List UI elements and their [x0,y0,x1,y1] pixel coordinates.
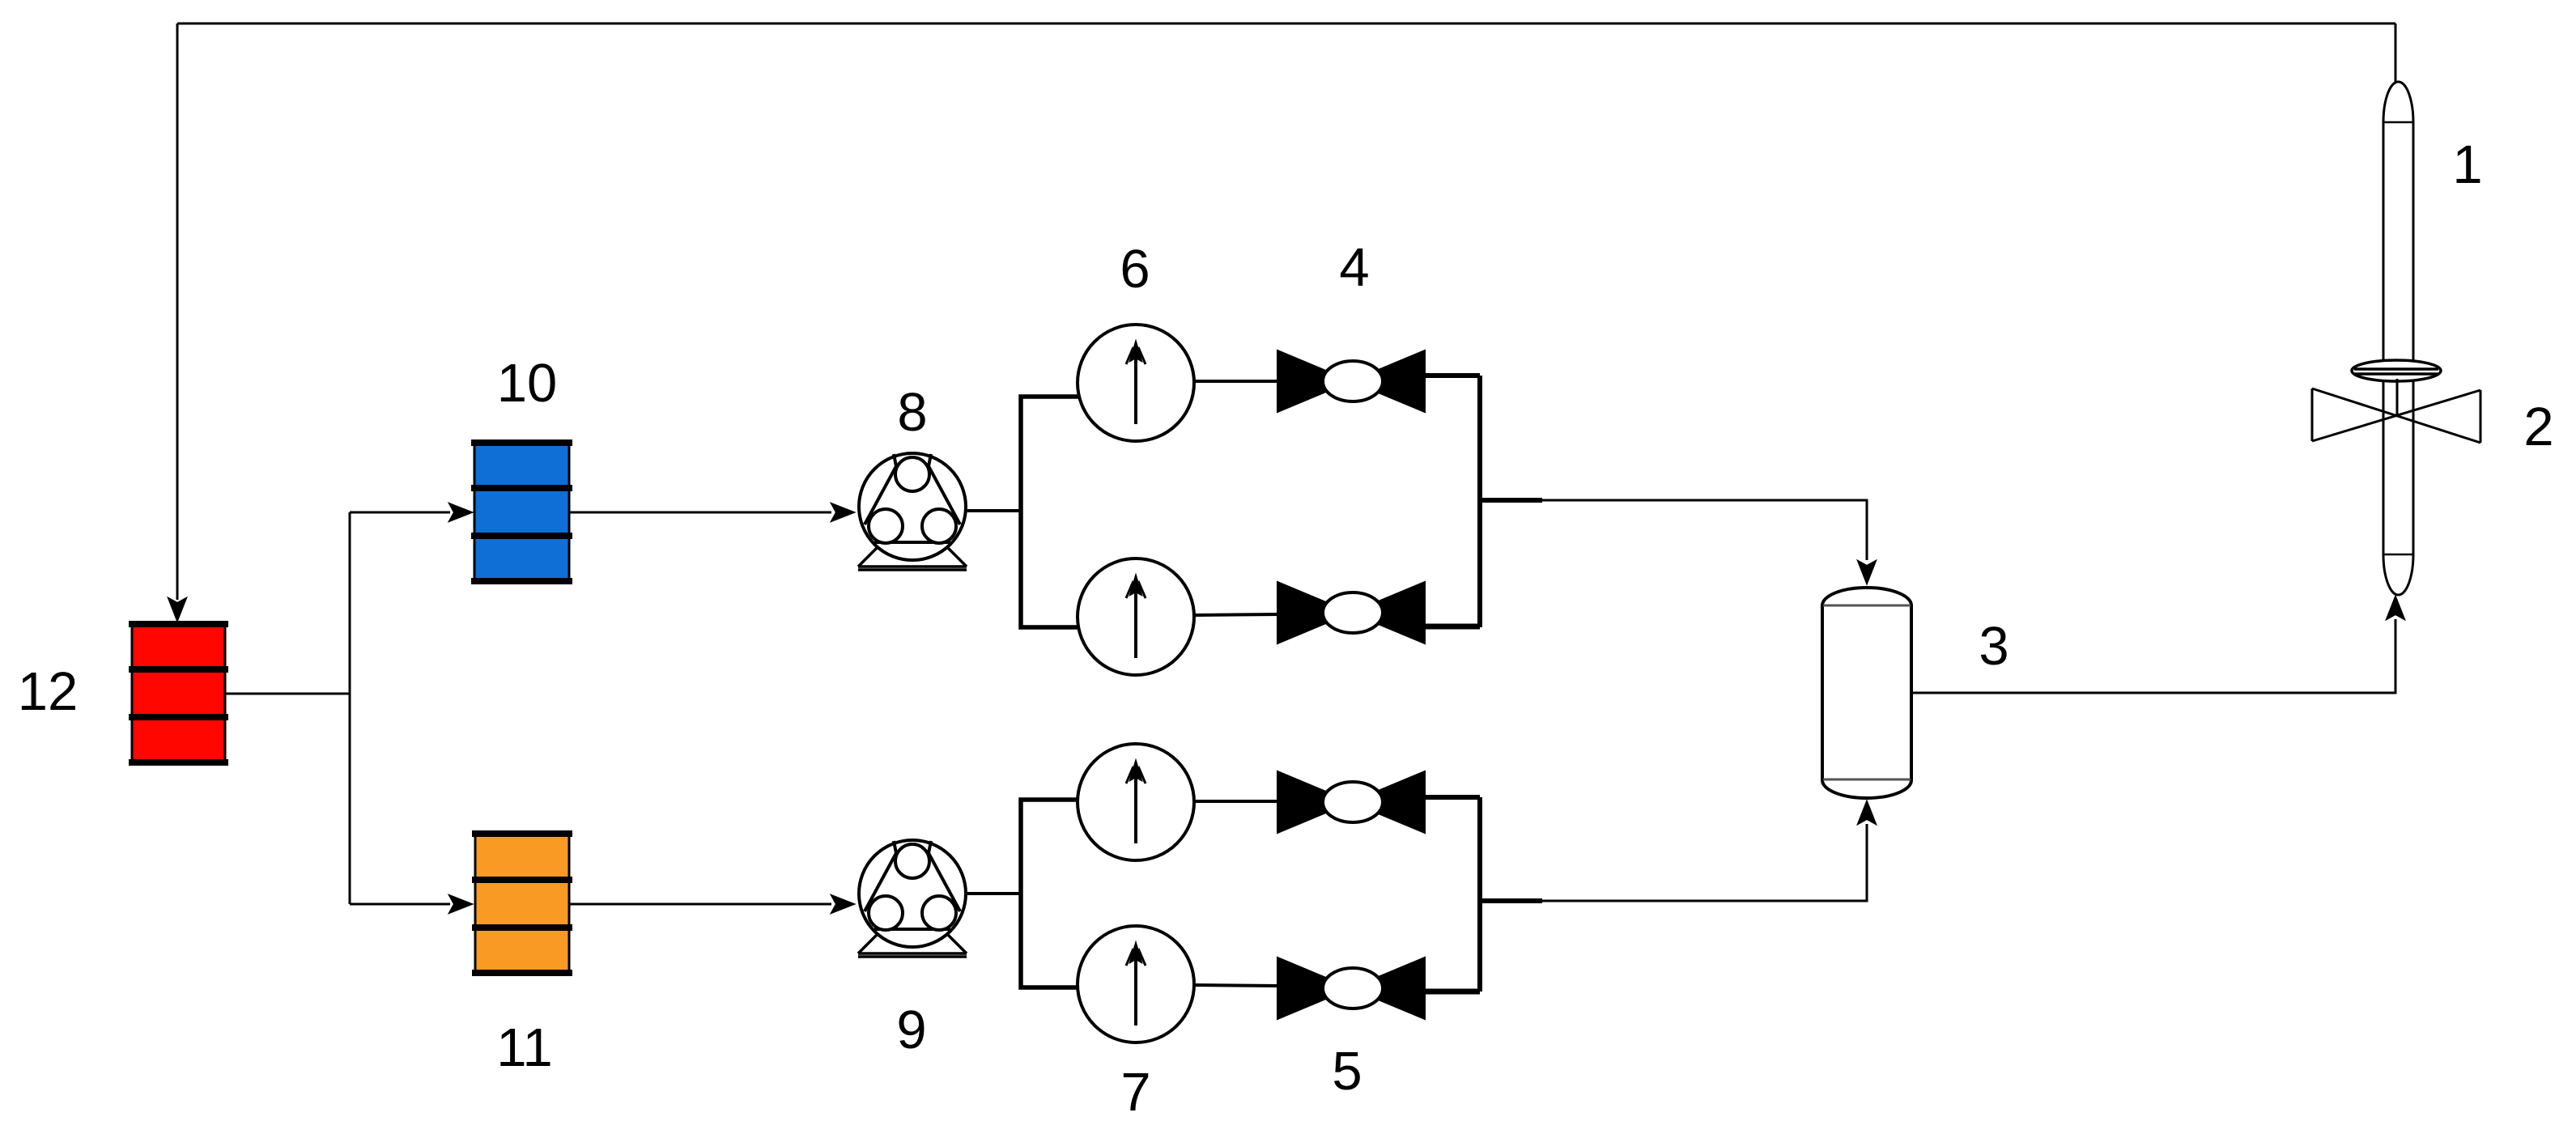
turbine 2 disc [2352,360,2441,381]
valve (lower of lower pair) [1277,958,1425,1019]
wire drum 10 to pump 8 [569,512,831,514]
upper branch frame right vertical [1477,376,1482,627]
wire upper branch output [1480,498,1542,503]
flow meter (lower of upper pair) [1078,558,1194,675]
wire valve to right vertical (lower of upper pair) [1423,624,1480,630]
wire valve 4 to right vertical [1423,373,1480,378]
wire to drum 10 [350,512,450,514]
arrow into drum 11 [449,895,472,913]
wire recycle right down to column top [2395,23,2397,82]
column 1 [2383,82,2413,595]
wire lower branch output [1480,898,1542,903]
arrow into column 1 bottom [2387,597,2404,619]
svg-text:2: 2 [2523,397,2553,457]
wire valve to right vertical (upper of lower pair) [1423,795,1480,800]
flow meter 6 [1078,325,1194,441]
wire top recycle horizontal [177,23,2395,25]
wire meter 7 to valve [1194,985,1280,986]
svg-text:4: 4 [1339,237,1369,298]
wire junction vertical [349,512,351,904]
wire pump 9 to branch [966,892,1021,895]
pump 8 (peristaltic) [858,453,967,570]
arrow into vessel 3 bottom [1858,801,1876,824]
upper branch frame left [1021,397,1083,627]
svg-text:9: 9 [896,1000,926,1060]
arrow into vessel 3 top [1858,561,1876,584]
arrow into drum 12 [168,598,186,621]
svg-text:3: 3 [1979,616,2009,677]
svg-text:7: 7 [1120,1062,1150,1123]
svg-text:10: 10 [497,353,558,414]
flow meter 7 [1078,926,1194,1042]
lower branch frame left [1021,800,1083,987]
turbine 2 blades [2312,389,2480,443]
wire pump 8 to branch [966,509,1021,512]
drum 11 (orange) [472,832,572,975]
flow meter (upper of lower pair) [1078,744,1194,860]
turbine 2 shaft stub [2396,379,2399,415]
svg-text:5: 5 [1332,1041,1362,1102]
pump 9 (peristaltic) [858,840,967,957]
drum 12 (red) [129,622,228,764]
wire drum 12 output [225,693,350,695]
svg-text:8: 8 [897,382,927,443]
wire vessel 3 output to column [1911,619,2395,693]
vessel 3 [1822,588,1911,798]
wire meter to valve (lower of upper pair) [1194,614,1280,615]
drum 10 (blue) [471,441,572,583]
valve 4 [1277,350,1425,412]
wire recycle left down to drum 12 [176,23,179,600]
wire meter to valve (upper of lower pair) [1194,800,1280,803]
svg-text:12: 12 [18,661,79,722]
wire valve to right vertical (lower of lower pair) [1423,989,1480,995]
arrow into pump 8 [831,503,854,521]
svg-text:11: 11 [496,1017,553,1078]
lower branch frame right vertical [1477,797,1482,992]
svg-text:6: 6 [1120,239,1150,299]
wire meter 6 to valve 4 [1194,380,1280,383]
valve (lower of upper pair) [1277,582,1425,643]
wire to drum 11 [350,903,450,906]
arrow into pump 9 [831,895,854,913]
arrow into drum 10 [449,503,472,521]
svg-text:1: 1 [2452,134,2482,195]
valve 5 (upper of lower pair) [1277,771,1425,833]
wire drum 11 to pump 9 [569,903,831,906]
